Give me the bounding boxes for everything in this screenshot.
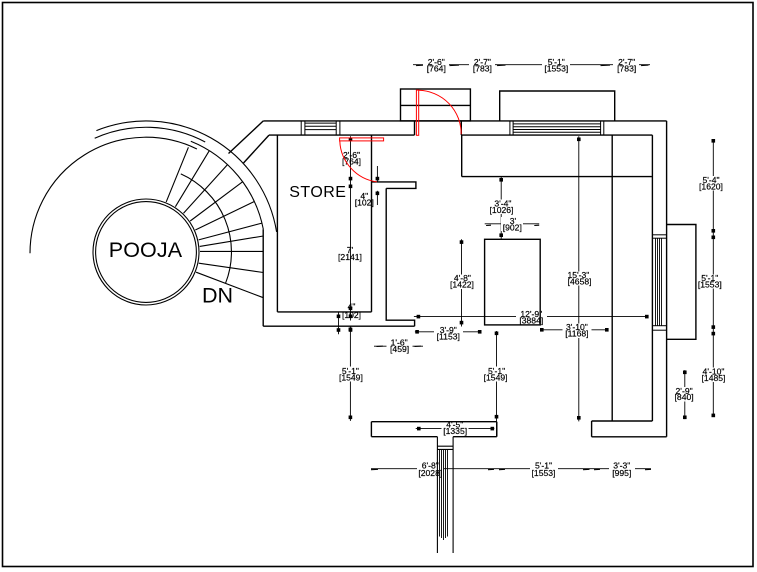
- tread T7: [200, 236, 264, 246]
- pooja outer circle: [93, 199, 199, 305]
- stair outer tread arc: [191, 141, 263, 229]
- band rect bottom edge: [462, 176, 652, 178]
- window W2 store cap left: [300, 121, 302, 135]
- dim text 2'-7 [783] top: [469, 57, 495, 74]
- bottom right step bottom: [592, 436, 667, 438]
- svg-text:[459]: [459]: [390, 344, 409, 354]
- bottom band bottom left part: [371, 436, 437, 438]
- dim tick dashes 1'-6": [377, 345, 422, 347]
- diagonal wall upper: [229, 121, 264, 154]
- dim text 5'-1" [1553] right: [696, 273, 724, 289]
- tread T8: [200, 250, 263, 252]
- svg-text:[1553]: [1553]: [544, 64, 568, 74]
- dim text 5'-4" [1620]: [698, 175, 726, 192]
- dim 4'-8" vline: [461, 239, 463, 331]
- dim right chain vline: [712, 140, 714, 416]
- dim tick dashes bottom chain: [371, 468, 651, 470]
- dim text 3' [902]: [501, 216, 523, 233]
- window W3 glazing lines: [655, 238, 657, 326]
- pooja inner circle: [96, 202, 197, 303]
- stair middle walk arc: [181, 174, 232, 283]
- top wall bottom line (left of front door): [269, 134, 415, 136]
- svg-text:STORE: STORE: [289, 184, 346, 201]
- stair outer band arc: [96, 121, 276, 232]
- svg-text:[1549]: [1549]: [484, 372, 508, 382]
- stair outer band arc (inner): [95, 127, 206, 142]
- dim 12'-9" hline: [414, 316, 649, 318]
- partition right wall: [386, 188, 414, 326]
- dim 3'-4" vline: [500, 177, 502, 239]
- long inner wall: [611, 135, 613, 421]
- window W1 top-center cap left: [509, 121, 511, 135]
- tread T5: [195, 202, 254, 231]
- dim text 3'-9" [1153]: [434, 325, 463, 342]
- bottom band right: [496, 422, 498, 437]
- svg-text:[1026]: [1026]: [490, 205, 514, 215]
- store right wall: [371, 135, 373, 312]
- dim text 2'-6 [764] top: [423, 57, 449, 74]
- dim 15'-3" vline: [578, 136, 580, 421]
- svg-text:[4658]: [4658]: [568, 276, 592, 286]
- tread T6: [199, 223, 262, 240]
- dim text 3'-3" [995] bottom: [609, 461, 635, 479]
- dim arrows (small filled squares): [337, 138, 715, 431]
- right wall outer line: [666, 121, 668, 437]
- porch rect 1 divider: [401, 104, 471, 106]
- store left wall inner: [276, 135, 278, 312]
- svg-text:[1335]: [1335]: [443, 426, 467, 436]
- tread T3: [184, 165, 228, 214]
- window W2 cap right: [335, 121, 337, 135]
- right wall inner line: [651, 135, 653, 421]
- dim text 5'-1 [1553] top: [542, 57, 570, 74]
- dim 4" stub lower vline: [376, 191, 378, 205]
- tread T9: [199, 263, 263, 272]
- dim 2'-9" vline: [684, 370, 686, 419]
- entry stair cap: [437, 445, 453, 447]
- dim 3'-9" hline: [415, 331, 481, 333]
- svg-text:[1553]: [1553]: [698, 279, 722, 289]
- dim text 2'-6 [764] store door: [339, 150, 365, 167]
- window W2 glazing lines: [305, 122, 336, 124]
- svg-text:[1549]: [1549]: [339, 372, 363, 382]
- dim top chain line: [413, 64, 650, 66]
- svg-text:[1620]: [1620]: [699, 182, 723, 192]
- dim 5'-1" left vline: [349, 326, 351, 421]
- dim 4" stub upper vline: [376, 166, 378, 182]
- svg-text:[1553]: [1553]: [532, 468, 556, 478]
- front door left jamb: [414, 121, 416, 135]
- bottom band left: [370, 422, 372, 437]
- diagonal wall lower: [244, 135, 270, 163]
- window W3 cap bottom: [652, 325, 666, 327]
- svg-text:DN: DN: [202, 284, 233, 308]
- svg-text:[2141]: [2141]: [338, 252, 362, 262]
- dim text 5'-1" [1553] bottom: [530, 461, 558, 479]
- dim 3' line: [485, 223, 540, 225]
- store left wall outer: [262, 229, 264, 326]
- svg-text:[764]: [764]: [342, 156, 361, 166]
- bottom right step left: [591, 421, 593, 437]
- stair left long arc: [30, 137, 197, 253]
- front door right jamb: [460, 121, 462, 135]
- svg-text:[1153]: [1153]: [437, 332, 460, 342]
- window W1 cap right: [600, 121, 602, 135]
- dim text 15'-3" [4658]: [565, 270, 594, 287]
- dim text 12'-9" [3884]: [516, 309, 547, 326]
- entry stair left side: [436, 437, 438, 553]
- dim text 6'-8" [2028]: [417, 461, 444, 479]
- bottom band bottom right part: [453, 436, 497, 438]
- dim tick dashes 3': [486, 224, 539, 226]
- svg-text:[840]: [840]: [675, 392, 694, 402]
- partition stub top: [372, 182, 416, 189]
- entry stair treads: [439, 449, 441, 536]
- dim text 4" [102] stub: [355, 191, 374, 208]
- dim text 3'-10" [1168]: [563, 322, 592, 339]
- front door leaf: [416, 90, 418, 135]
- dim text 4'-5" [1335]: [442, 419, 469, 435]
- band rect left edge: [461, 135, 463, 177]
- svg-text:[995]: [995]: [612, 468, 631, 478]
- top wall top line: [263, 120, 666, 122]
- dim text 1'-6" [459]: [387, 338, 413, 355]
- dim text 5'-1" [1549] right: [483, 366, 510, 383]
- dim 4'-5" hline: [416, 428, 495, 430]
- svg-text:[2028]: [2028]: [418, 468, 442, 478]
- dim text 4'-10" [1485]: [699, 366, 729, 383]
- dim text 2'-7 [783] top right: [613, 57, 639, 74]
- tread T1: [166, 147, 188, 202]
- svg-text:[902]: [902]: [503, 222, 522, 232]
- dim 2'-6"/7' vline drawn over texts: [350, 136, 352, 320]
- svg-text:[1422]: [1422]: [450, 280, 474, 290]
- dim text 4'-8" [1422]: [449, 273, 475, 290]
- window W1 glazing lines: [513, 123, 601, 125]
- store bottom wall outer: [263, 325, 414, 327]
- dim text 3'-4" [1026]: [487, 199, 516, 216]
- store door leaf: [340, 138, 384, 141]
- svg-text:[764]: [764]: [427, 64, 446, 74]
- porch rect 1: [401, 89, 471, 121]
- dim text 4" [102] store bottom: [342, 302, 361, 321]
- dim text 7' [2141]: [338, 245, 362, 262]
- store bottom wall inner: [277, 311, 371, 313]
- svg-text:POOJA: POOJA: [109, 238, 183, 262]
- entry stair right side: [452, 437, 454, 553]
- tread D1 (DN flight): [196, 272, 263, 298]
- front door swing arc: [419, 90, 462, 134]
- dim 1'-6" hline: [374, 345, 423, 347]
- svg-text:[1485]: [1485]: [702, 373, 726, 383]
- tread T2: [175, 151, 209, 207]
- porch rect 2: [500, 91, 615, 121]
- svg-text:[783]: [783]: [473, 64, 492, 74]
- dim text 2'-9" [840]: [672, 386, 697, 402]
- dim 3'-10" hline: [540, 329, 608, 331]
- bottom right step top: [592, 420, 653, 422]
- tread T4: [190, 182, 243, 221]
- projection rect right: [667, 225, 696, 340]
- dim 4" store bottom vline over texts: [338, 312, 340, 334]
- dim text 5'-1" [1549] left: [337, 366, 364, 383]
- dim tick dashes top chain: [416, 64, 649, 67]
- bottom band top: [371, 421, 496, 423]
- dim 5'-1" right vline: [496, 331, 498, 437]
- svg-text:[783]: [783]: [617, 64, 636, 74]
- central rectangle (table): [485, 239, 541, 325]
- dim bottom chain line: [371, 468, 651, 470]
- store door swing arc: [340, 141, 377, 182]
- svg-text:[1168]: [1168]: [565, 328, 588, 338]
- window W3 right-wall cap top: [652, 234, 666, 236]
- top wall bottom line (right of front door): [461, 134, 652, 136]
